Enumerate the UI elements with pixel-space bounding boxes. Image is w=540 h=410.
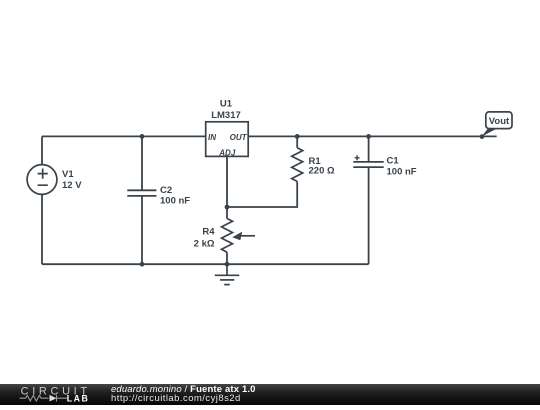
svg-text:ADJ: ADJ <box>218 149 236 158</box>
wire C2 bottom <box>141 196 143 264</box>
label C1 value <box>387 156 417 178</box>
junction ADJ node <box>225 205 230 210</box>
wire ADJ node to R1 bottom <box>227 181 297 207</box>
svg-text:2 kΩ: 2 kΩ <box>194 239 215 250</box>
wire R1 top <box>296 136 298 147</box>
wire V1 bottom <box>41 194 43 264</box>
svg-text:12 V: 12 V <box>62 180 82 191</box>
svg-text:100 nF: 100 nF <box>160 195 190 206</box>
junction Vout anchor <box>480 134 485 139</box>
wire V1 top <box>41 136 43 164</box>
pin label IN <box>208 133 216 142</box>
junction C2 top <box>140 134 145 139</box>
label R1 value <box>309 156 335 177</box>
junction ground node <box>225 262 230 267</box>
op-amp U1 LM317 box <box>206 122 249 157</box>
wire R4 bottom <box>226 252 228 264</box>
svg-text:C2: C2 <box>160 185 172 196</box>
svg-text:LM317: LM317 <box>211 110 241 121</box>
svg-text:V1: V1 <box>62 169 74 180</box>
pin label ADJ <box>218 149 236 158</box>
junction C1 top <box>366 134 371 139</box>
svg-text:OUT: OUT <box>230 133 248 142</box>
resistor R1 <box>292 148 303 182</box>
svg-text:R4: R4 <box>202 227 215 238</box>
pin label OUT <box>230 133 248 142</box>
capacitor C1 (polarized) <box>353 155 383 167</box>
label C2 value <box>160 185 190 206</box>
ground <box>215 264 240 284</box>
R4 wiper arrow <box>232 232 255 241</box>
resistor R4 (rheostat) <box>222 219 233 253</box>
wire C1 top <box>368 136 370 162</box>
svg-text:Vout: Vout <box>489 116 510 127</box>
junction C2 bottom <box>140 262 145 267</box>
wire top rail left (V1 to U1 IN) <box>42 135 206 137</box>
CircuitLab logo <box>0 384 100 405</box>
junction R1 top <box>295 134 300 139</box>
svg-text:C1: C1 <box>387 156 400 167</box>
svg-text:100 nF: 100 nF <box>387 167 417 178</box>
wire bottom rail <box>42 263 369 265</box>
svg-text:U1: U1 <box>220 99 233 110</box>
footer credits <box>111 385 256 404</box>
label U1 name <box>211 99 241 121</box>
node flag Vout <box>482 112 513 137</box>
label R4 value <box>194 227 216 250</box>
voltage source V1 <box>27 165 57 195</box>
wire C2 top <box>141 136 143 190</box>
capacitor C2 <box>127 190 156 196</box>
footer bar <box>0 384 540 405</box>
svg-text:IN: IN <box>208 133 216 142</box>
wire U1 ADJ down <box>226 156 228 207</box>
wire top rail right (U1 OUT to Vout) <box>248 135 497 137</box>
label V1 value <box>62 169 82 191</box>
wire C1 bottom <box>368 167 370 264</box>
svg-text:220 Ω: 220 Ω <box>309 166 335 177</box>
svg-text:LAB: LAB <box>67 394 90 404</box>
wire R4 top <box>226 207 228 219</box>
